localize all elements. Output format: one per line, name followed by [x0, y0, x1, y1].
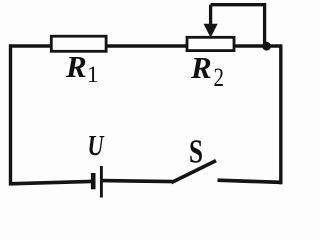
junction node dot (wiper tap joins right branch)	[262, 42, 271, 51]
svg-text:U: U	[88, 130, 106, 162]
wire: bottom middle segment (battery to switch pivot)	[103, 181, 173, 182]
wire: bottom right segment (switch to right corner)	[218, 180, 282, 182]
battery cell (source U): long thin positive plate	[100, 166, 103, 198]
svg-text:2: 2	[214, 63, 225, 92]
svg-text:S: S	[189, 134, 203, 171]
wire: right vertical	[279, 44, 282, 184]
rheostat R2 wiper: arrow shaft	[209, 5, 212, 28]
svg-text:R: R	[65, 49, 87, 84]
rheostat R2 wiper: loop wire up and over to right node	[211, 5, 265, 45]
rheostat R2 wiper: arrowhead pointing down onto body	[204, 24, 218, 38]
resistor R1 body	[51, 36, 106, 51]
wire: top horizontal (node between battery +, R1, R2)	[9, 44, 281, 47]
resistor R2 (rheostat) body	[187, 37, 234, 50]
svg-text:R: R	[190, 50, 212, 85]
wire: left vertical	[9, 44, 12, 185]
switch S: lever arm (open)	[171, 161, 216, 183]
svg-text:1: 1	[87, 62, 99, 87]
battery cell (source U): short thick negative plate	[91, 173, 96, 189]
wire: bottom left segment (battery to left corner)	[9, 181, 92, 183]
